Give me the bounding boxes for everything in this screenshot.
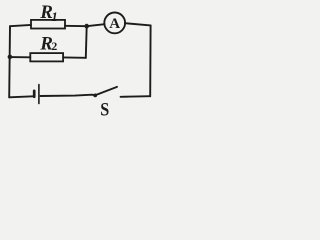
battery cell: long thin plate <box>38 85 40 104</box>
resistor R1 <box>31 20 65 29</box>
wire: right vertical <box>149 25 151 96</box>
wire: junction to ammeter <box>87 24 105 26</box>
wire: R2 left <box>10 56 30 58</box>
wire: bottom-left to battery <box>9 96 33 97</box>
svg-text:A: A <box>109 16 120 32</box>
switch S fixed contact wire <box>121 95 151 98</box>
svg-text:2: 2 <box>52 41 58 53</box>
node junction (left R2 tap) <box>8 55 13 60</box>
switch S pivot dot <box>93 94 97 98</box>
switch S blade (open) <box>95 87 117 95</box>
svg-text:S: S <box>100 98 109 120</box>
ammeter U1 circle <box>104 13 125 34</box>
wire: R2 right <box>63 56 86 58</box>
wire: junction down to R2 branch <box>85 26 88 58</box>
wire: R1 right to junction <box>65 25 87 27</box>
wire: left vertical <box>8 26 11 97</box>
node junction (R1 / ammeter / R2 branch) <box>84 24 89 29</box>
wire: top-left horizontal to R1 <box>10 25 31 26</box>
svg-text:1: 1 <box>51 9 58 24</box>
wire: ammeter right to top-right corner <box>125 23 151 25</box>
resistor R2 <box>30 53 63 61</box>
wire: battery to switch <box>41 95 96 96</box>
battery cell: short thick plate <box>33 91 36 97</box>
